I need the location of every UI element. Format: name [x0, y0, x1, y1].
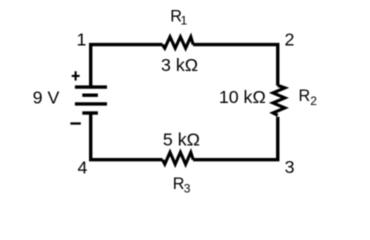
svg-text:10 kΩ: 10 kΩ	[219, 87, 266, 107]
resistor R2	[273, 85, 285, 115]
battery plate long top (+)	[75, 85, 107, 88]
svg-text:4: 4	[78, 158, 88, 178]
svg-text:1: 1	[181, 13, 188, 27]
wire top-left (battery + up to node 1 corner, across to R1)	[91, 45, 163, 88]
battery plus sign	[72, 71, 80, 80]
battery plate short	[82, 93, 98, 96]
wire bottom-left (R3 to node 4 corner, up to battery -)	[91, 113, 163, 160]
battery plate short bottom (-)	[82, 111, 98, 114]
svg-text:3: 3	[184, 182, 191, 196]
svg-text:R: R	[299, 87, 311, 105]
svg-text:3: 3	[285, 157, 295, 177]
svg-text:R: R	[173, 175, 185, 193]
resistor R3	[162, 152, 193, 164]
svg-text:2: 2	[284, 30, 294, 50]
svg-text:2: 2	[310, 94, 317, 108]
svg-text:9 V: 9 V	[33, 87, 60, 107]
svg-text:1: 1	[76, 30, 86, 50]
svg-text:5 kΩ: 5 kΩ	[163, 129, 200, 149]
svg-text:3 kΩ: 3 kΩ	[161, 55, 198, 75]
wire top-right (R1 to node 2 corner, down to R2)	[193, 45, 278, 86]
wire bottom-right (R2 down to node 3 corner, across to R3)	[193, 117, 278, 160]
resistor R1	[162, 37, 193, 48]
battery minus sign	[70, 122, 80, 124]
battery plate long	[75, 102, 107, 105]
